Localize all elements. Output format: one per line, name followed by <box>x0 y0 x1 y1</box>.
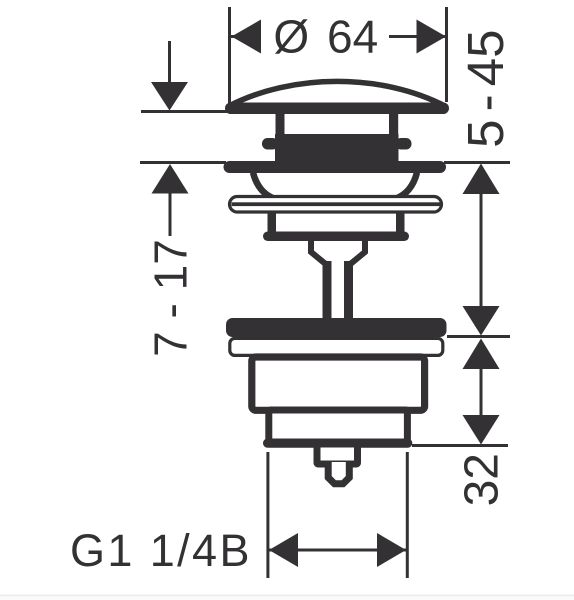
arrowhead Ø64 left <box>232 20 262 54</box>
neck left wall <box>276 112 285 136</box>
flange bar <box>224 161 447 173</box>
collar left chamfer <box>311 240 325 264</box>
body upper section outline <box>252 357 425 410</box>
seal block <box>275 134 399 162</box>
reference line flange level right <box>444 161 510 164</box>
stem wall left <box>323 261 332 320</box>
32 dimension line <box>480 369 483 415</box>
7-17 upper stub line <box>168 41 171 83</box>
arrowhead G1 left <box>269 533 298 567</box>
reference line gasket bottom (5-45/32 boundary) <box>447 335 510 338</box>
extension line left of Ø64 dimension <box>228 7 231 104</box>
stem wall right <box>344 261 353 320</box>
dimension line Ø64 right stub <box>389 35 446 38</box>
gasket <box>226 318 447 337</box>
reference line flange level left <box>140 161 226 164</box>
7-17 upper arrowhead (down) <box>151 82 188 111</box>
32 upper arrowhead (up) <box>463 339 500 370</box>
o-ring center line <box>232 202 441 206</box>
seal nub left <box>262 138 278 150</box>
extension line right of G1 dimension <box>406 452 409 578</box>
extension line left of G1 dimension <box>266 452 269 578</box>
5-45 upper arrowhead (up) <box>463 164 500 195</box>
svg-text:Ø 64: Ø 64 <box>273 11 378 63</box>
cap rim <box>225 103 449 115</box>
32 lower arrowhead (down) <box>463 415 500 445</box>
cup bottom bar <box>263 232 409 242</box>
body flare left <box>253 173 274 199</box>
washer outline <box>230 338 443 355</box>
svg-text:G1 1/4B: G1 1/4B <box>70 525 252 576</box>
nub step 2 outline (chamfered) <box>328 462 349 484</box>
body lower section outline <box>269 410 408 443</box>
extension line right of Ø64 dimension <box>445 7 448 102</box>
5-45 dimension line <box>480 194 483 307</box>
o-ring bar outline <box>230 197 442 213</box>
7-17 lower arrowhead (up) <box>152 164 189 194</box>
svg-text:7 - 17: 7 - 17 <box>145 239 197 357</box>
7-17 lower stub line <box>169 194 172 237</box>
footer strip <box>0 596 574 600</box>
svg-text:5 - 45: 5 - 45 <box>457 29 514 147</box>
arrowhead G1 right <box>377 533 406 567</box>
reference line body bottom (32 end) <box>412 444 508 447</box>
G1 dimension line <box>269 549 406 552</box>
cup wall right <box>396 211 405 234</box>
dimension line Ø64 left stub <box>231 35 261 38</box>
svg-text:32: 32 <box>456 453 509 506</box>
footer divider line <box>0 595 574 597</box>
neck right wall <box>389 112 398 136</box>
seal nub right <box>396 138 412 150</box>
5-45 lower arrowhead (down) <box>463 306 500 336</box>
body bottom bar <box>263 439 412 448</box>
reference line cap rim level (7-17 top) <box>141 110 236 113</box>
cap dome arc <box>228 81 446 106</box>
cup wall left <box>268 211 277 234</box>
arrowhead Ø64 right <box>417 20 447 54</box>
body flare right <box>396 173 417 199</box>
collar right chamfer <box>351 240 365 264</box>
nub step 1 outline <box>317 444 358 464</box>
